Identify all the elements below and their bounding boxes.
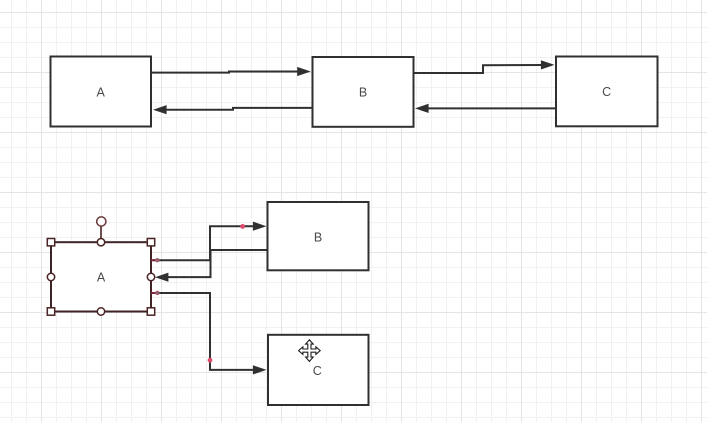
endpoint stub on wire A2-B2 — [151, 259, 158, 261]
box A1 (top row) — [51, 57, 152, 127]
wire A1 to B1 — [151, 67, 311, 76]
svg-text:C: C — [602, 85, 611, 99]
svg-text:B: B — [314, 231, 322, 245]
box B2 (bottom group) — [268, 202, 369, 270]
wire B2 to A2 — [155, 250, 268, 282]
svg-text:A: A — [97, 271, 106, 285]
edge handle left — [47, 273, 54, 280]
endpoint dot on wire A2-C2 — [155, 291, 159, 295]
svg-text:A: A — [97, 85, 106, 99]
wire A2 to B2 — [153, 222, 267, 261]
waypoint dot on wire A2-C2 — [208, 358, 213, 363]
box C2 (bottom group) — [268, 335, 369, 405]
corner handle top-right — [147, 239, 154, 246]
edge handle right — [147, 273, 154, 280]
svg-text:C: C — [313, 364, 322, 378]
wire A2 to C2 — [153, 293, 267, 375]
wire C1 to B1 — [415, 104, 556, 113]
box B1 (top row) — [313, 57, 414, 127]
waypoint dot on wire A2-B2 — [240, 224, 245, 229]
rotation handle — [97, 217, 106, 226]
rotation handle stem — [100, 226, 102, 240]
edge handle bottom — [97, 308, 104, 315]
endpoint dot on wire A2-B2 — [155, 258, 159, 262]
wire B1 to C1 — [414, 60, 555, 73]
corner handle bottom-left — [47, 308, 54, 315]
edge handle top — [97, 239, 104, 246]
move cursor icon — [299, 340, 321, 362]
endpoint stub on wire A2-C2 — [151, 292, 158, 294]
wire B1 to A1 — [153, 105, 313, 114]
svg-text:B: B — [359, 86, 367, 100]
box A2 (selected shape) — [51, 242, 151, 311]
corner handle top-left — [47, 239, 54, 246]
box C1 (top row) — [556, 57, 658, 127]
corner handle bottom-right — [147, 308, 154, 315]
